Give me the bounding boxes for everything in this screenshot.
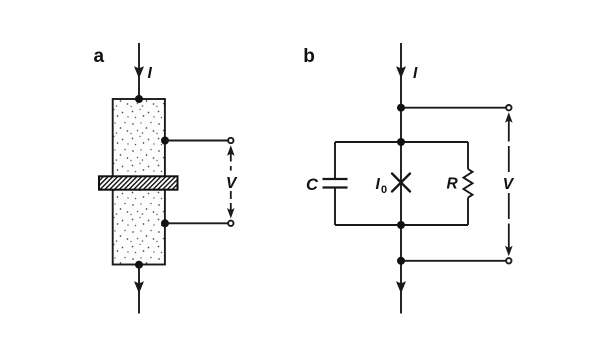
voltage arrow V (panel a) bbox=[230, 153, 232, 211]
resistor R (zigzag) bbox=[464, 169, 473, 198]
svg-text:I: I bbox=[376, 176, 381, 193]
node (box top) bbox=[397, 138, 405, 146]
svg-text:b: b bbox=[303, 46, 315, 67]
wire (upper tap to terminal) bbox=[165, 140, 228, 142]
arrowhead (current I in, panel b) bbox=[396, 66, 406, 78]
terminal (lower, panel b) bbox=[506, 258, 511, 263]
terminal (upper, panel b) bbox=[506, 105, 511, 110]
wire (lower tap to terminal) bbox=[165, 222, 228, 224]
wire (top lead, panel a) bbox=[138, 43, 140, 98]
svg-text:a: a bbox=[94, 46, 105, 67]
svg-text:0: 0 bbox=[381, 184, 387, 196]
Josephson junction X (I0) bbox=[392, 174, 410, 192]
terminal (upper, panel a) bbox=[228, 138, 233, 143]
voltage arrow V (panel b) bbox=[508, 120, 510, 248]
svg-text:I: I bbox=[148, 65, 153, 82]
node (top of block) bbox=[135, 95, 143, 103]
wire (capacitor branch lower) bbox=[334, 188, 336, 226]
wire (top terminal lead, panel b) bbox=[401, 107, 506, 109]
wire (center branch, panel b) bbox=[400, 43, 402, 314]
wire (resistor branch upper) bbox=[467, 142, 469, 169]
svg-text:R: R bbox=[447, 176, 459, 193]
wire (bottom terminal lead, panel b) bbox=[401, 260, 506, 262]
terminal (lower, panel a) bbox=[228, 221, 233, 226]
node (top terminal tap) bbox=[397, 104, 405, 112]
svg-text:I: I bbox=[413, 65, 418, 82]
node (lower right tap) bbox=[161, 219, 169, 227]
arrowhead (current out, panel b) bbox=[396, 281, 406, 293]
wire (capacitor branch upper) bbox=[334, 142, 336, 179]
node (upper right tap) bbox=[161, 137, 169, 145]
wire (bottom lead, panel a) bbox=[138, 265, 140, 314]
node (bottom of block) bbox=[135, 261, 143, 269]
node (bottom terminal tap) bbox=[397, 257, 405, 265]
svg-text:V: V bbox=[503, 176, 515, 193]
capacitor C bbox=[323, 178, 348, 180]
arrowhead (current I into junction) bbox=[134, 66, 144, 78]
barrier bar (hatched tunnel barrier) bbox=[99, 176, 178, 189]
arrowhead (current out of junction) bbox=[134, 281, 144, 293]
wire (parallel box bottom) bbox=[335, 224, 468, 226]
wire (parallel box top) bbox=[335, 141, 468, 143]
wire (resistor branch lower) bbox=[467, 198, 469, 225]
svg-text:V: V bbox=[226, 175, 238, 192]
node (box bottom) bbox=[397, 221, 405, 229]
svg-text:C: C bbox=[306, 176, 319, 194]
electrode block (stippled superconductor bar) bbox=[113, 99, 165, 265]
